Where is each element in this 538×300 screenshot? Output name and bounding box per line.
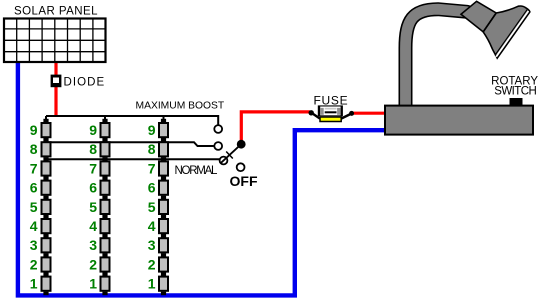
svg-text:9: 9	[30, 122, 38, 138]
svg-text:4: 4	[30, 218, 38, 234]
svg-text:7: 7	[30, 160, 38, 176]
svg-text:SWITCH: SWITCH	[494, 86, 536, 98]
svg-text:OFF: OFF	[230, 173, 258, 189]
svg-text:8: 8	[148, 141, 156, 157]
svg-text:6: 6	[89, 180, 97, 196]
svg-text:5: 5	[30, 199, 38, 215]
svg-text:NORMAL: NORMAL	[175, 165, 219, 177]
svg-text:1: 1	[148, 276, 156, 292]
svg-text:7: 7	[89, 160, 97, 176]
svg-text:2: 2	[30, 256, 38, 272]
svg-text:DIODE: DIODE	[64, 77, 106, 89]
svg-text:1: 1	[30, 276, 38, 292]
svg-text:FUSE: FUSE	[314, 94, 349, 108]
svg-text:MAXIMUM BOOST: MAXIMUM BOOST	[136, 101, 225, 112]
svg-text:2: 2	[89, 256, 97, 272]
svg-text:8: 8	[89, 141, 97, 157]
svg-text:3: 3	[89, 237, 97, 253]
svg-text:4: 4	[89, 218, 97, 234]
svg-text:3: 3	[148, 237, 156, 253]
svg-text:4: 4	[148, 218, 156, 234]
svg-text:6: 6	[148, 180, 156, 196]
svg-text:9: 9	[89, 122, 97, 138]
svg-text:5: 5	[148, 199, 156, 215]
svg-text:6: 6	[30, 180, 38, 196]
svg-text:7: 7	[148, 160, 156, 176]
svg-text:2: 2	[148, 256, 156, 272]
svg-text:SOLAR PANEL: SOLAR PANEL	[14, 5, 98, 17]
svg-text:8: 8	[30, 141, 38, 157]
svg-text:9: 9	[148, 122, 156, 138]
svg-text:1: 1	[89, 276, 97, 292]
svg-text:5: 5	[89, 199, 97, 215]
svg-text:3: 3	[30, 237, 38, 253]
